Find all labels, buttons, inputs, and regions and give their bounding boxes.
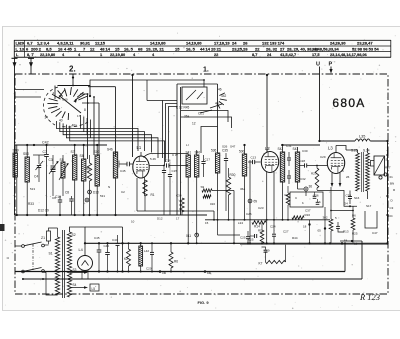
svg-text:D12: D12 — [157, 217, 163, 221]
return wire lower — [22, 278, 362, 280]
IF1 earthy drops — [187, 168, 240, 275]
IF1 tuning cap C16b — [201, 155, 210, 177]
hum loop wire — [365, 211, 377, 228]
svg-text:C25: C25 — [240, 236, 246, 240]
svg-text:S49: S49 — [13, 149, 19, 153]
svg-text:17,5: 17,5 — [312, 52, 320, 57]
svg-text:46: 46 — [218, 88, 222, 92]
detector load box — [290, 192, 323, 207]
cap C42 on rail — [26, 141, 98, 147]
svg-text:68: 68 — [138, 46, 143, 51]
bypass cap C39 — [336, 222, 344, 232]
AVC bus junctions — [213, 219, 289, 221]
svg-text:132 133 174: 132 133 174 — [262, 41, 285, 46]
page scan edge top — [2, 26, 400, 28]
junction 05 — [318, 207, 327, 243]
bus junction dots — [16, 214, 99, 216]
wave switch 1 dashed sector — [43, 87, 88, 127]
svg-text:12,15: 12,15 — [95, 41, 106, 46]
junction dots right edge — [386, 154, 388, 245]
svg-text:12: 12 — [192, 122, 196, 126]
svg-text:46a: 46a — [72, 124, 78, 128]
svg-text:R6: R6 — [174, 260, 178, 264]
transformer secondary S2 — [67, 232, 75, 297]
paper speckle texture — [5, 33, 397, 309]
decoupling cap L29 — [262, 247, 270, 258]
svg-text:23,25,26: 23,25,26 — [232, 46, 248, 51]
wave switch 1 frame — [55, 74, 91, 99]
output transformer S25 — [351, 148, 370, 199]
svg-text:C45: C45 — [94, 236, 100, 240]
mains switch lower — [15, 268, 44, 273]
svg-text:C36: C36 — [313, 194, 319, 198]
wire riser right A — [344, 243, 346, 271]
svg-text:S47: S47 — [230, 145, 236, 149]
svg-text:D12 C9: D12 C9 — [38, 209, 49, 213]
svg-text:S1: S1 — [49, 252, 53, 256]
svg-text:C28: C28 — [300, 159, 306, 163]
cap C10 — [55, 195, 62, 215]
link wire to oscillator switch — [90, 79, 205, 85]
svg-text:22,19,80: 22,19,80 — [110, 52, 125, 57]
svg-text:L I: L I — [186, 143, 189, 147]
svg-text:C16: C16 — [165, 159, 171, 163]
svg-text:S46: S46 — [107, 148, 113, 152]
svg-text:16, 5: 16, 5 — [186, 46, 196, 51]
svg-text:8, 7: 8, 7 — [27, 52, 34, 57]
HT rail lower edge — [240, 244, 388, 246]
resistor R14 — [252, 221, 266, 229]
coupling cap C28 — [299, 159, 327, 168]
svg-text:016: 016 — [210, 202, 215, 206]
smoothing choke L35 — [355, 135, 389, 143]
anode hook to output transformer — [336, 146, 358, 154]
svg-text:S8: S8 — [80, 154, 84, 158]
svg-text:S: S — [386, 158, 388, 162]
svg-text:680A: 680A — [332, 96, 365, 110]
svg-text:C20: C20 — [146, 267, 152, 271]
svg-text:R44: R44 — [292, 236, 298, 240]
svg-text:14,19,80: 14,19,80 — [186, 41, 202, 46]
svg-text:30,31: 30,31 — [80, 41, 91, 46]
HT rail junctions — [128, 242, 347, 244]
coil S46 — [107, 148, 118, 217]
svg-text:C21: C21 — [198, 112, 204, 116]
svg-text:36a: 36a — [240, 187, 245, 191]
transformer core — [63, 230, 65, 298]
svg-text:C W: C W — [172, 153, 178, 157]
wave switch 1 contacts — [47, 87, 87, 120]
svg-text:15: 15 — [175, 46, 180, 51]
cathode resistor R1 — [143, 180, 155, 211]
svg-text:1,2 3,4: 1,2 3,4 — [37, 41, 50, 46]
svg-text:K 12 R45: K 12 R45 — [176, 106, 190, 110]
coil S50 — [23, 145, 29, 216]
svg-text:17,18,19: 17,18,19 — [214, 41, 230, 46]
resistor R5 — [258, 223, 264, 244]
svg-text:R16: R16 — [305, 213, 311, 217]
terminal U — [316, 62, 320, 142]
svg-text:R27: R27 — [385, 166, 391, 170]
svg-text:C15: C15 — [172, 169, 178, 173]
wave switch 1 labels — [45, 91, 90, 128]
svg-text:S7: S7 — [71, 150, 75, 154]
svg-text:C3: C3 — [49, 158, 53, 162]
svg-text:23,28,47: 23,28,47 — [357, 41, 373, 46]
cathode resistor R4 — [285, 186, 290, 220]
svg-text:0B: 0B — [162, 271, 166, 275]
grid cap C13 — [248, 156, 261, 165]
resistor R9 — [86, 155, 92, 215]
svg-text:C6: C6 — [52, 196, 56, 200]
svg-text:200 2: 200 2 — [31, 46, 42, 51]
svg-text:24: 24 — [232, 41, 237, 46]
svg-text:1.: 1. — [203, 67, 209, 74]
svg-text:10: 10 — [131, 220, 135, 224]
svg-text:L2: L2 — [265, 146, 270, 151]
HT dropper wire — [85, 227, 124, 273]
tap S4 — [70, 283, 89, 289]
svg-text:44 14 20 21: 44 14 20 21 — [200, 46, 222, 51]
svg-text:S40: S40 — [195, 151, 201, 155]
svg-text:S.34: S.34 — [363, 149, 370, 153]
diode load wire — [149, 159, 188, 168]
svg-text:C46: C46 — [104, 244, 110, 248]
feedback wires — [317, 191, 357, 208]
junction D11 — [186, 233, 199, 238]
svg-text:22,19,80: 22,19,80 — [40, 52, 55, 57]
svg-text:S4: S4 — [73, 283, 77, 287]
svg-text:C40: C40 — [62, 98, 68, 102]
RF coil S7 — [71, 145, 77, 215]
svg-text:C29: C29 — [320, 155, 326, 159]
smoothing coil L42 — [139, 242, 150, 271]
detector resistors — [201, 185, 235, 198]
page blemish mark — [0, 224, 5, 231]
wave switch 2 contacts — [200, 93, 227, 113]
wave switch 2 labels — [176, 88, 227, 126]
svg-text:C23: C23 — [258, 206, 264, 210]
svg-text:S50: S50 — [23, 152, 29, 156]
svg-text:D10: D10 — [93, 191, 99, 195]
resistor R7 — [259, 245, 286, 266]
svg-text:6,7: 6,7 — [27, 41, 33, 46]
fuse Z1 — [41, 228, 58, 245]
svg-text:40: 40 — [59, 119, 63, 123]
svg-text:C35: C35 — [222, 149, 228, 153]
svg-text:C42: C42 — [42, 141, 49, 145]
AVC feed vertical — [131, 74, 133, 157]
svg-text:C3: C3 — [390, 206, 394, 210]
long vertical x234 — [233, 191, 235, 245]
valve L1 — [133, 145, 188, 211]
svg-text:R1: R1 — [151, 193, 155, 197]
switch 1 wire bundle — [57, 115, 165, 166]
IF1 primary S41 — [186, 151, 192, 244]
aerial terminal arrow — [12, 58, 18, 74]
svg-text:19, 20, 21: 19, 20, 21 — [146, 46, 165, 51]
svg-text:Z1: Z1 — [41, 236, 45, 240]
svg-text:23,14,48,14,17,98,06: 23,14,48,14,17,98,06 — [330, 52, 368, 57]
junction D13 — [85, 198, 89, 202]
svg-text:C34: C34 — [176, 194, 182, 198]
svg-text:531: 531 — [100, 194, 105, 198]
junction B — [303, 220, 311, 244]
HT rail — [85, 242, 388, 244]
IF1 secondary S40 — [195, 150, 201, 235]
wire top rail right — [281, 144, 320, 146]
svg-text:011: 011 — [186, 234, 191, 238]
svg-text:S.25: S.25 — [351, 149, 358, 153]
svg-text:513: 513 — [30, 187, 35, 191]
grid resistor R23 — [311, 165, 319, 190]
tone cap C38 — [346, 191, 353, 205]
cap C25 — [240, 231, 250, 243]
svg-text:D4: D4 — [344, 202, 348, 206]
svg-text:R13: R13 — [343, 230, 349, 234]
svg-text:52 98 96 53 54: 52 98 96 53 54 — [352, 46, 379, 51]
svg-text:48 14: 48 14 — [100, 46, 111, 51]
svg-text:R30: R30 — [230, 173, 236, 177]
right edge HT wire — [387, 141, 389, 243]
svg-text:BN: BN — [390, 182, 394, 186]
mains switch upper — [15, 242, 44, 247]
table row 2 text — [16, 46, 380, 51]
cap C44 — [112, 235, 120, 272]
earth terminal arrow — [28, 58, 34, 74]
svg-text:S16: S16 — [354, 196, 360, 200]
tap S3 — [70, 268, 89, 274]
switch link dash-dot — [32, 244, 34, 270]
svg-text:L3: L3 — [328, 146, 333, 151]
oscillator padder wires — [147, 80, 177, 158]
svg-text:12: 12 — [90, 46, 95, 51]
svg-text:8,7: 8,7 — [252, 52, 257, 57]
svg-text:C27: C27 — [283, 230, 289, 234]
svg-text:C45: C45 — [120, 169, 126, 173]
svg-text:4,9,10,11: 4,9,10,11 — [57, 41, 74, 46]
anode feed wire — [318, 140, 355, 142]
svg-text:15: 15 — [205, 221, 209, 225]
svg-text:14,19,80: 14,19,80 — [150, 41, 166, 46]
svg-text:C8: C8 — [65, 191, 69, 195]
svg-text:C26: C26 — [246, 212, 252, 216]
switch 1 left wires — [15, 90, 44, 98]
svg-text:34: 34 — [45, 116, 49, 120]
antenna lead-in wire — [14, 74, 16, 215]
svg-text:16: 16 — [58, 46, 63, 51]
page scan edge bottom — [2, 310, 400, 312]
wave switch 2 box — [177, 80, 218, 104]
loudspeaker — [371, 156, 391, 179]
bias junction wire — [330, 210, 354, 212]
valve-pin connection table frame — [14, 40, 391, 57]
resistor K2 — [124, 243, 131, 271]
IF2 secondary S43 — [293, 147, 300, 189]
svg-text:C47: C47 — [372, 231, 378, 235]
svg-text:N: N — [108, 185, 110, 189]
svg-text:L42: L42 — [144, 249, 149, 253]
svg-text:17: 17 — [176, 217, 180, 221]
cathode bias resistor 302 — [323, 187, 333, 243]
RF coil S8 — [80, 145, 86, 216]
svg-text:L1: L1 — [137, 145, 142, 150]
RF coil S10 — [94, 145, 100, 215]
svg-text:500: 500 — [239, 150, 245, 154]
svg-text:L4: L4 — [79, 248, 83, 252]
svg-text:R33: R33 — [28, 202, 34, 206]
svg-text:12: 12 — [354, 242, 358, 246]
valve L2 — [261, 146, 278, 243]
IF2 tuning caps — [287, 152, 291, 184]
svg-text:302: 302 — [323, 216, 328, 220]
svg-text:29: 29 — [20, 41, 25, 46]
IF2 primary S42 — [278, 144, 285, 220]
cap C8 — [65, 191, 74, 216]
svg-text:16, 5: 16, 5 — [124, 46, 134, 51]
chassis bus junctions — [22, 271, 172, 281]
misc small value labels — [30, 143, 378, 240]
svg-text:09: 09 — [254, 200, 258, 204]
svg-text:26: 26 — [346, 175, 350, 179]
terminal P — [329, 62, 333, 74]
svg-text:L5: L5 — [92, 287, 96, 291]
svg-text:C44: C44 — [112, 238, 118, 242]
HT secondary top lead — [70, 227, 86, 256]
junction 0B — [159, 270, 166, 275]
cap C7 — [43, 145, 49, 215]
resistor R6 — [169, 242, 178, 271]
wire top rail left RF — [15, 144, 107, 146]
svg-text:4 45: 4 45 — [64, 46, 73, 51]
svg-text:536: 536 — [211, 149, 217, 153]
variable inductor L6 — [59, 155, 69, 196]
oscillator feed vertical — [266, 74, 268, 152]
cap C24 — [270, 220, 276, 244]
svg-text:49: 49 — [215, 102, 219, 106]
svg-text:C2: C2 — [121, 190, 125, 194]
cap L25 — [249, 234, 257, 242]
dial lamp feed — [340, 239, 362, 246]
svg-text:2.: 2. — [69, 65, 76, 74]
svg-text:18: 18 — [303, 225, 307, 229]
svg-text:L35: L35 — [359, 135, 365, 139]
svg-text:C32: C32 — [300, 177, 306, 181]
svg-text:R 123: R 123 — [359, 292, 380, 302]
valve L3 — [327, 146, 344, 188]
junction D10 — [88, 190, 99, 194]
svg-text:5.46: 5.46 — [150, 157, 156, 161]
cap C20 — [146, 243, 154, 271]
grid feed to S46 — [88, 87, 116, 157]
svg-text:S9: S9 — [201, 185, 205, 189]
page scan edge left — [2, 26, 4, 311]
padder cap C5 — [162, 158, 166, 215]
switch 1 drop wires — [80, 93, 99, 159]
svg-text:S3: S3 — [73, 268, 77, 272]
wire riser right B — [361, 241, 363, 279]
svg-text:27: 27 — [280, 46, 285, 51]
svg-text:D6: D6 — [352, 214, 356, 218]
svg-text:41,5,42,7: 41,5,42,7 — [280, 52, 296, 57]
svg-text:FIG. 9: FIG. 9 — [197, 300, 209, 305]
osc coupling resistor — [176, 194, 184, 216]
grid leak R25 — [351, 206, 358, 243]
svg-text:C31: C31 — [286, 144, 292, 148]
right edge small labels — [389, 175, 397, 218]
trimmer C4 — [33, 155, 45, 182]
earth bus left — [15, 214, 207, 216]
aerial coil S49 — [13, 145, 19, 215]
svg-text:26a: 26a — [184, 115, 190, 119]
svg-text:32,48,56,33,34: 32,48,56,33,34 — [312, 46, 339, 51]
svg-text:C17: C17 — [205, 158, 211, 162]
svg-text:S17: S17 — [366, 204, 372, 208]
svg-text:442: 442 — [221, 94, 227, 98]
svg-text:C24: C24 — [270, 225, 276, 229]
svg-text:01: 01 — [390, 175, 394, 179]
svg-text:S26: S26 — [222, 145, 228, 149]
chassis boundary dash-dot border — [15, 74, 388, 294]
svg-text:13: 13 — [20, 46, 25, 51]
table row 1 text — [16, 41, 374, 46]
svg-text:26: 26 — [243, 41, 248, 46]
svg-text:8,5: 8,5 — [46, 46, 52, 51]
svg-text:L24: L24 — [238, 221, 243, 225]
junction D9 — [248, 160, 257, 243]
svg-text:C37: C37 — [305, 209, 311, 213]
svg-text:P: P — [329, 62, 333, 68]
svg-text:C13: C13 — [251, 156, 257, 160]
resistor R16 — [292, 213, 310, 219]
svg-text:24,26,30: 24,26,30 — [330, 41, 346, 46]
svg-text:6B: 6B — [207, 271, 211, 275]
svg-text:26, 32: 26, 32 — [266, 46, 278, 51]
svg-text:15: 15 — [115, 46, 120, 51]
rectifier valve L4 — [78, 242, 93, 279]
variable capacitor C3 — [49, 155, 59, 196]
main chassis bus — [15, 271, 345, 273]
osc coil 500 — [239, 144, 247, 220]
svg-text:L25: L25 — [249, 238, 254, 242]
svg-text:36: 36 — [309, 185, 313, 189]
IF coupling coil S36 — [211, 149, 220, 212]
padder cap C6 — [168, 158, 177, 215]
svg-text:K7: K7 — [259, 262, 263, 266]
svg-text:C4: C4 — [34, 175, 38, 179]
table row 3 text — [16, 52, 368, 57]
svg-text:54: 54 — [344, 239, 348, 243]
resistor R30 — [226, 168, 235, 220]
switch 2 wires — [177, 84, 232, 215]
svg-text:22: 22 — [255, 46, 260, 51]
svg-text:8: 8 — [84, 108, 86, 112]
wire y211 to detector — [137, 211, 214, 220]
svg-text:05: 05 — [318, 229, 322, 233]
grid cap C14 — [119, 161, 133, 173]
transformer primary S1 — [44, 228, 59, 295]
dial lamp L5 — [90, 284, 99, 291]
AVC bus — [205, 219, 330, 221]
diode junction 36 — [298, 185, 313, 197]
svg-text:C30: C30 — [302, 149, 308, 153]
reservoir cap C45 — [94, 236, 101, 273]
cap C35 — [222, 149, 228, 169]
reservoir cap C46 — [104, 242, 110, 272]
